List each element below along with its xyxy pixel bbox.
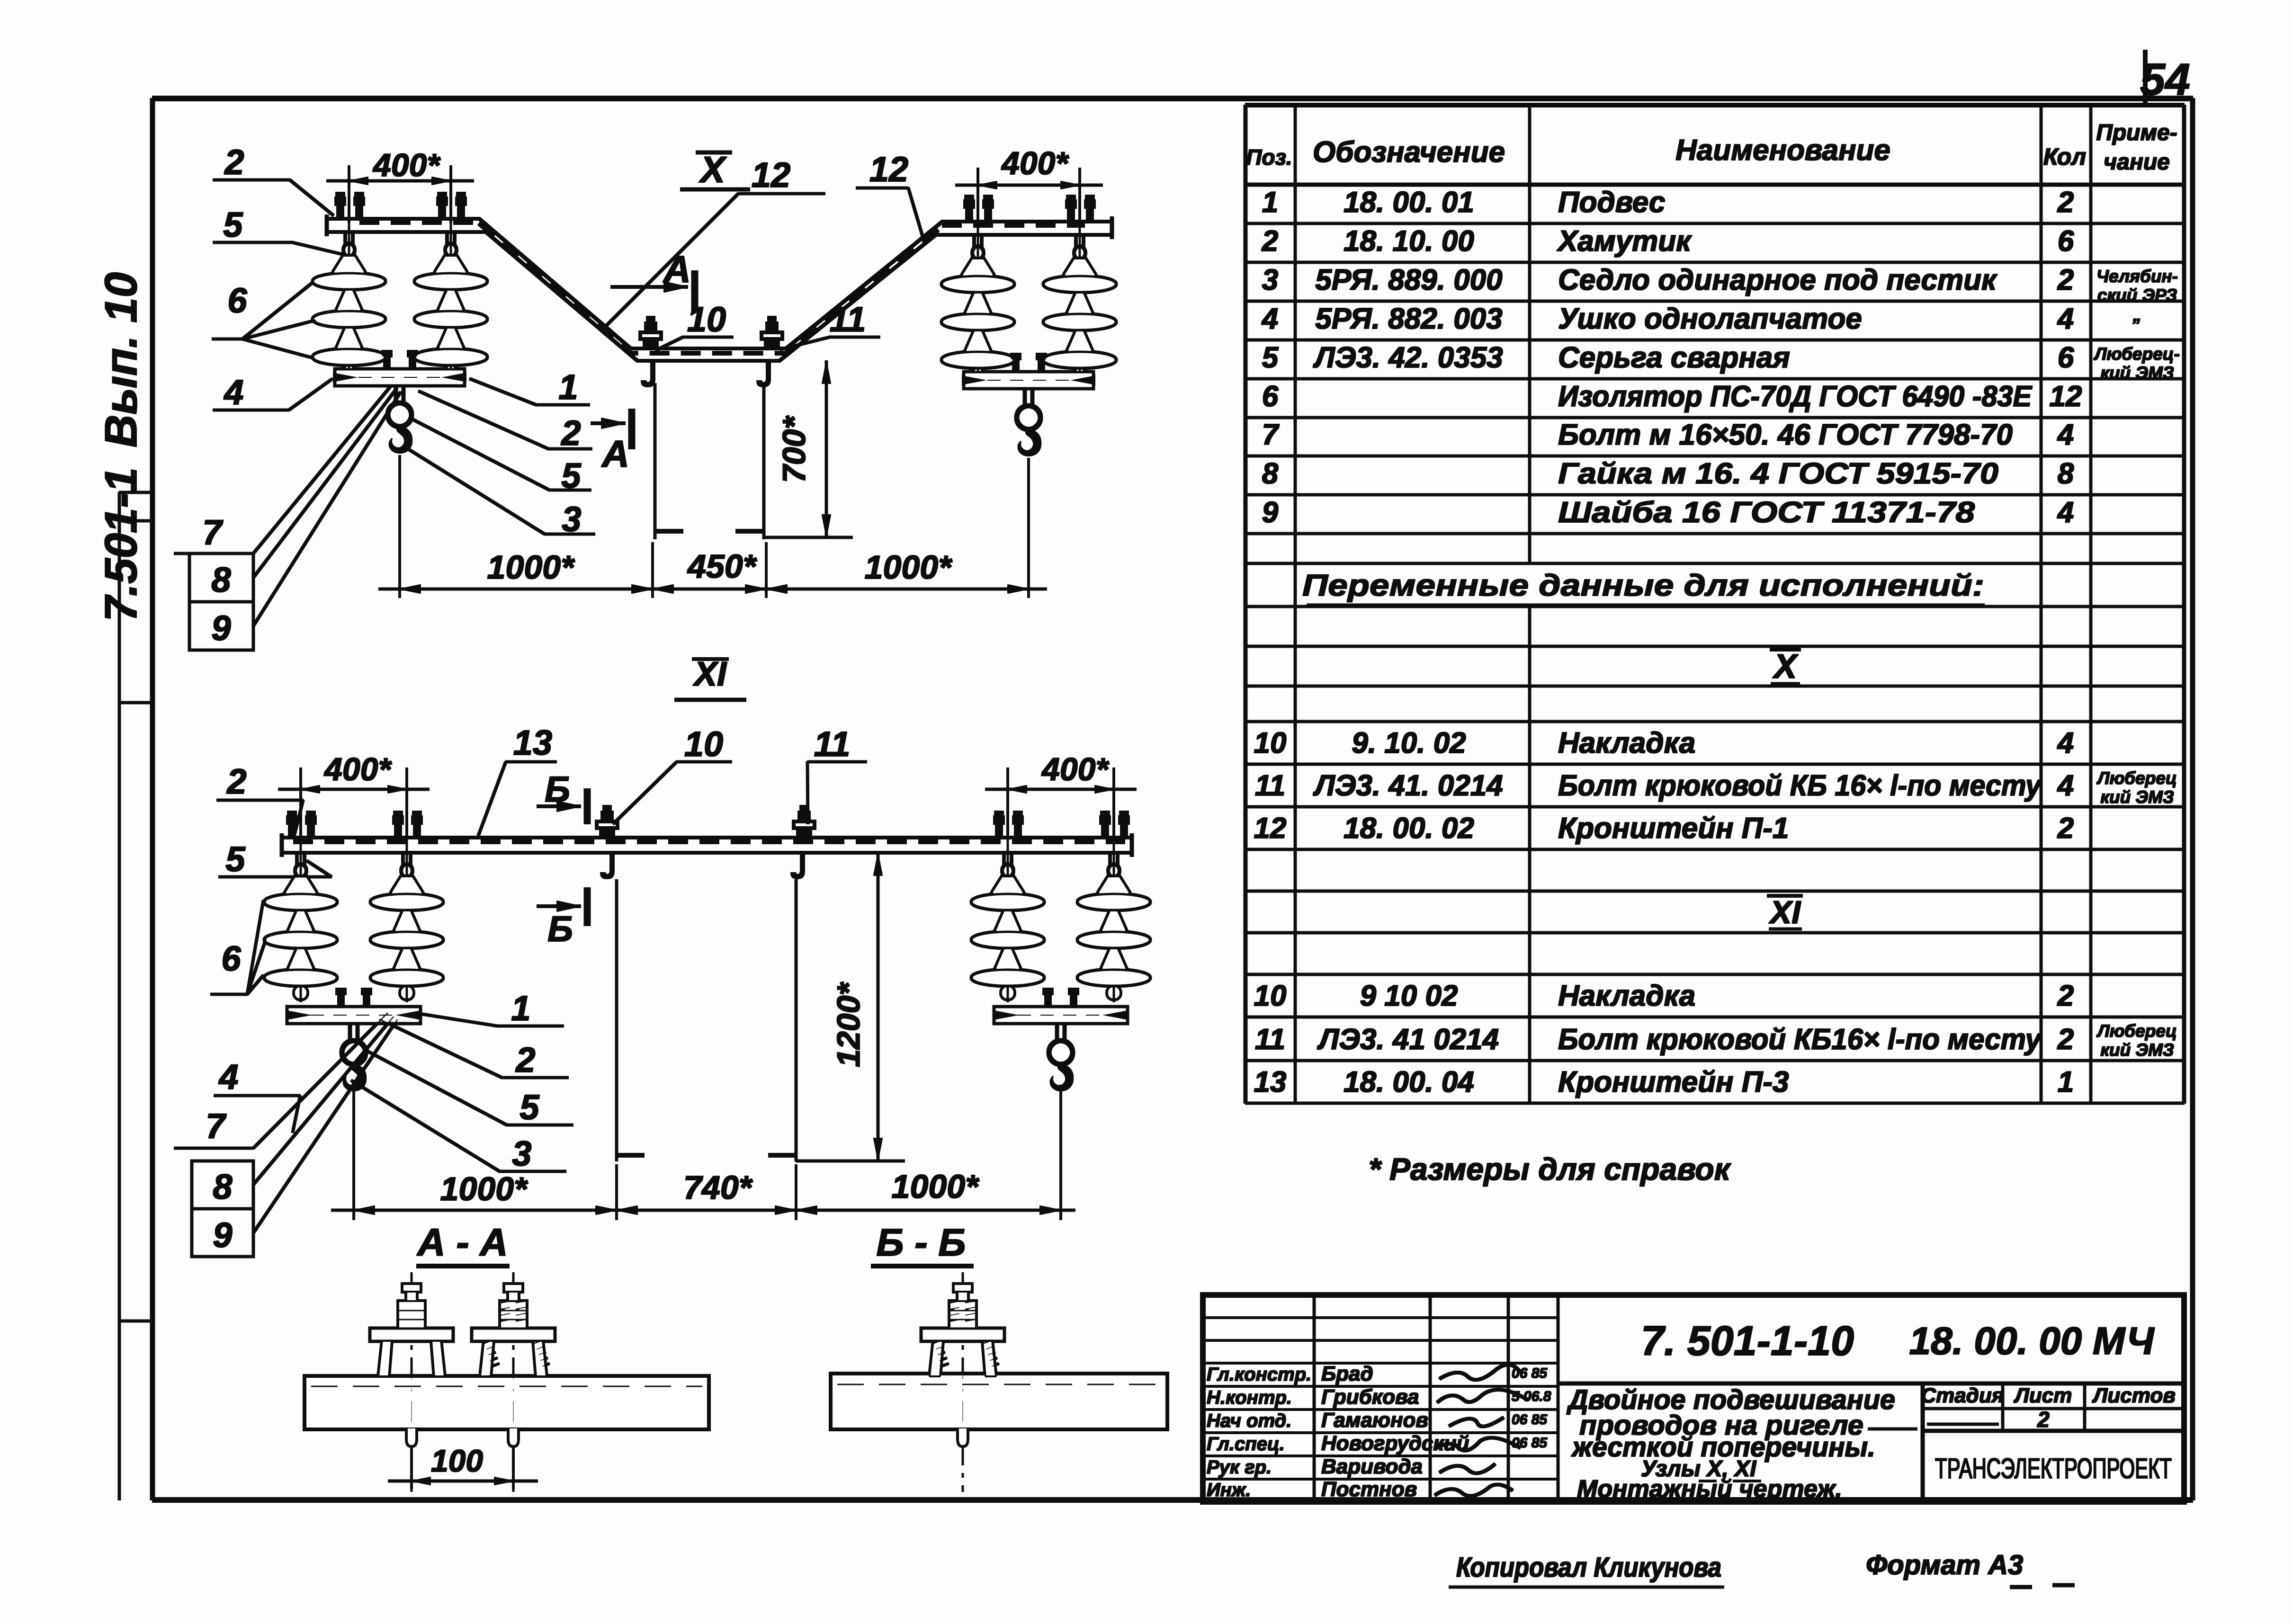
svg-text:Седло одинарное под пестик: Седло одинарное под пестик — [1558, 264, 1997, 296]
svg-text:5РЯ. 882. 003: 5РЯ. 882. 003 — [1315, 303, 1502, 335]
svg-text:XI: XI — [692, 655, 727, 693]
svg-text:4: 4 — [2057, 419, 2074, 451]
svg-text:2: 2 — [226, 762, 246, 801]
table row 9 Шайба 16 ГОСТ 11371-78 — [1262, 496, 2074, 529]
section A-A bolt left (saddle pos.3) — [370, 1273, 453, 1491]
hook assembly pos.5/3 (X left) — [388, 385, 412, 453]
hook assembly pos.5/3 (XI right) — [1049, 1023, 1073, 1091]
leader label 11 hook bolt X — [780, 300, 880, 349]
hook bolt hanger (left, under middle beam) — [641, 361, 655, 387]
section mark B (upper) — [537, 769, 587, 824]
svg-text:12: 12 — [2050, 380, 2082, 413]
suspension bar pos.1 (X right) — [964, 372, 1093, 388]
svg-text:1: 1 — [558, 367, 578, 407]
bracket P-1 (pos.12) dashes on beam — [360, 223, 1084, 353]
svg-text:2: 2 — [2057, 186, 2074, 219]
svg-text:8: 8 — [2058, 457, 2074, 490]
parts list table grid — [1245, 105, 2184, 1103]
dimension 400* (XI right) — [985, 751, 1136, 839]
leader label 2 bar clamp XI — [379, 1019, 568, 1080]
svg-text:1: 1 — [511, 989, 530, 1028]
lug pos.4 wedges on bar (XI left) — [287, 1010, 420, 1020]
leader labels 8 9 nut washer XI — [192, 1016, 398, 1257]
svg-text:54: 54 — [2140, 54, 2190, 105]
svg-text:Обозначение: Обозначение — [1313, 136, 1505, 169]
svg-text:кий ЭМЗ: кий ЭМЗ — [2100, 1040, 2174, 1060]
left margin column — [119, 492, 152, 1500]
svg-text:5 06.8: 5 06.8 — [1512, 1389, 1551, 1404]
svg-text:06 85: 06 85 — [1512, 1412, 1548, 1428]
svg-text:3: 3 — [512, 1134, 531, 1173]
leader label 5 hook earring XI — [366, 1050, 573, 1127]
lug pos.4 wedges on bar (X right) — [962, 375, 1095, 385]
svg-text:Лист: Лист — [2014, 1384, 2072, 1407]
table row 4 Ушко однолапчатое — [1261, 303, 2141, 335]
svg-text:1: 1 — [1262, 186, 1278, 219]
svg-text:Поз.: Поз. — [1246, 145, 1292, 170]
svg-text:11: 11 — [1255, 769, 1285, 802]
leader label 12 bracket P-1 right — [856, 150, 923, 239]
stage grid — [1921, 1384, 2175, 1432]
dimension 400* (XI left) — [278, 751, 429, 839]
view X title — [681, 149, 750, 190]
stand outline below middle beam — [655, 384, 764, 539]
table row 3 Седло одинарное под пестик — [1262, 264, 2178, 305]
signature row Инж. Постнов — [1207, 1478, 1513, 1501]
lug pos.4 wedges on bar (XI right) — [994, 1010, 1127, 1020]
section B-B bolt (hook bolt pos.11) — [922, 1273, 1004, 1491]
insulator string pos.6 (XI left-2) — [371, 824, 443, 1002]
dimension 400* (X left) — [327, 147, 474, 223]
svg-text:4: 4 — [223, 373, 243, 412]
svg-text:Гл.констр.: Гл.констр. — [1207, 1364, 1311, 1385]
svg-text:9: 9 — [213, 1215, 232, 1255]
svg-text:4: 4 — [2057, 727, 2074, 759]
title block frame — [1203, 1295, 2184, 1502]
svg-text:2: 2 — [2057, 980, 2074, 1012]
table row 7 Болт м 16×50. 46 ГОСТ 7798-70 — [1262, 419, 2074, 451]
svg-text:2: 2 — [2057, 264, 2074, 296]
svg-text:Ушко однолапчатое: Ушко однолапчатое — [1558, 303, 1862, 335]
svg-text:Б: Б — [545, 769, 570, 810]
svg-text:4: 4 — [218, 1057, 238, 1097]
sheet number 54 — [2140, 50, 2190, 105]
svg-text:6: 6 — [2058, 225, 2074, 258]
svg-text:13: 13 — [513, 723, 552, 762]
leader label 6 insulators XI — [211, 901, 266, 994]
svg-text:5РЯ. 889. 000: 5РЯ. 889. 000 — [1315, 264, 1502, 296]
svg-text:2: 2 — [515, 1040, 535, 1080]
leader label 2 bar clamp X — [419, 391, 592, 453]
section A-A bolt right (pad pos.10) — [472, 1273, 555, 1491]
organization name — [1935, 1453, 2172, 1484]
leader label 2 to beam clamp X — [213, 143, 333, 215]
svg-text:10: 10 — [684, 724, 723, 764]
svg-text:4: 4 — [2057, 496, 2074, 529]
svg-text:18. 00. 00 МЧ: 18. 00. 00 МЧ — [1909, 1320, 2155, 1363]
svg-text:Люберец: Люберец — [2096, 768, 2177, 788]
svg-text:ЛЭ3. 42. 0353: ЛЭ3. 42. 0353 — [1313, 341, 1503, 374]
group XI heading — [1767, 894, 1802, 930]
svg-text:Переменные данные для испол: Переменные данные для исполнений: — [1302, 568, 1984, 602]
svg-text:6: 6 — [227, 281, 247, 320]
svg-text:1: 1 — [2058, 1066, 2074, 1098]
svg-text:Формат А3: Формат А3 — [1866, 1550, 2023, 1580]
svg-text:ский ЭРЗ: ский ЭРЗ — [2097, 286, 2177, 305]
dimension chain 1000* 740* 1000* (XI) — [331, 1085, 1075, 1220]
leader label 5 hook earring X — [411, 419, 591, 495]
svg-text:400*: 400* — [372, 147, 441, 183]
svg-text:5: 5 — [223, 205, 243, 244]
svg-text:2: 2 — [2057, 1023, 2074, 1056]
svg-text:Кол: Кол — [2043, 143, 2086, 170]
copied-by line — [1449, 1550, 2074, 1587]
svg-text:4: 4 — [2057, 303, 2074, 335]
svg-text:12: 12 — [752, 155, 790, 195]
svg-text:кий ЭМЗ: кий ЭМЗ — [2100, 787, 2174, 807]
signature row Нач отд. Гамаюнов — [1207, 1409, 1548, 1432]
svg-text:5: 5 — [1262, 341, 1279, 374]
beam of unit XI (straight crossarm rail) — [282, 834, 1132, 857]
document numbers — [1641, 1317, 2155, 1364]
suspension bar pos.1 (XI right) — [994, 1007, 1127, 1023]
hook bolt pos.11 on middle beam — [761, 316, 782, 348]
leader label 1 suspension bar X — [470, 367, 590, 407]
svg-text:Серьга сварная: Серьга сварная — [1558, 341, 1790, 374]
svg-text:Болт м 16×50. 46 ГОСТ 7798-70: Болт м 16×50. 46 ГОСТ 7798-70 — [1558, 419, 2013, 451]
svg-text:9 10 02: 9 10 02 — [1360, 980, 1458, 1012]
clamp pos.2 on bar (X right) — [1011, 353, 1047, 372]
beam of unit X (bent crossarm rail) — [327, 215, 1112, 361]
svg-text:кий ЭМЗ: кий ЭМЗ — [2100, 363, 2174, 383]
svg-text:2: 2 — [224, 143, 244, 182]
svg-text:740*: 740* — [683, 1169, 753, 1206]
svg-text:Люберец-: Люберец- — [2093, 344, 2180, 364]
svg-text:Подвес: Подвес — [1558, 186, 1665, 219]
table row 8 Гайка м 16. 4 ГОСТ 5915-70 — [1262, 457, 2074, 490]
svg-text:Варивода: Варивода — [1321, 1455, 1423, 1478]
table row 10 Накладка — [1254, 980, 2074, 1012]
table row 2 Хамутик — [1262, 225, 2074, 258]
pad bolt pos.10 on beam XI — [597, 805, 618, 838]
svg-text:6: 6 — [1262, 380, 1279, 413]
dimension 1200* — [796, 853, 905, 1161]
svg-text:Наименование: Наименование — [1675, 134, 1890, 167]
svg-text:7: 7 — [1262, 419, 1280, 451]
svg-text:X: X — [1772, 648, 1799, 686]
svg-text:Кронштейн П-3: Кронштейн П-3 — [1558, 1066, 1789, 1098]
suspension bar pos.1 (X left) — [335, 369, 464, 385]
svg-text:18. 00. 04: 18. 00. 04 — [1344, 1066, 1474, 1098]
dimension chain 1000* 450* 1000* (X) — [379, 455, 1047, 598]
hook bolt pos.11 on beam XI — [794, 805, 815, 838]
table row 5 Серьга сварная — [1262, 341, 2180, 383]
svg-text:Брад: Брад — [1321, 1362, 1373, 1385]
svg-text:А: А — [601, 433, 629, 475]
svg-text:7. 501-1-10: 7. 501-1-10 — [1641, 1317, 1854, 1364]
svg-text:8: 8 — [213, 1167, 233, 1206]
svg-text:Хамутик: Хамутик — [1557, 225, 1692, 258]
leader label 3 hook XI — [351, 1080, 566, 1173]
table row 12 Кронштейн П-1 — [1254, 812, 2074, 845]
svg-text:ЛЭ3. 41 0214: ЛЭ3. 41 0214 — [1317, 1023, 1499, 1056]
leader label 5 to earring XI — [219, 839, 331, 879]
svg-text:400*: 400* — [323, 751, 392, 787]
svg-text:9: 9 — [1262, 496, 1279, 529]
leader label 4 to lug XI — [214, 1057, 300, 1133]
svg-text:2: 2 — [2057, 812, 2074, 845]
svg-text:13: 13 — [1254, 1066, 1287, 1098]
hook assembly pos.5/3 (X right) — [1017, 388, 1041, 456]
svg-text:1000*: 1000* — [440, 1170, 528, 1207]
insulator string pos.6 (XI right-2) — [1078, 824, 1150, 1002]
svg-text:Люберец: Люберец — [2096, 1021, 2177, 1041]
svg-text:5: 5 — [225, 839, 246, 879]
svg-text:4: 4 — [2057, 769, 2074, 802]
svg-text:Накладка: Накладка — [1558, 980, 1695, 1012]
insulator string pos.6 (X left-2) — [415, 204, 487, 381]
leader label 10 pad XI — [613, 724, 732, 824]
svg-text:100: 100 — [431, 1443, 483, 1478]
dimension 100 (A-A) — [388, 1443, 537, 1489]
svg-text:Вып. 10: Вып. 10 — [96, 272, 146, 447]
svg-text:1000*: 1000* — [865, 549, 953, 586]
insulator string pos.6 (XI left-1) — [265, 824, 337, 1002]
svg-text:10: 10 — [1254, 980, 1287, 1012]
svg-text:18. 00. 01: 18. 00. 01 — [1344, 186, 1474, 219]
insulator string pos.6 (X left-1) — [313, 204, 385, 381]
section mark B (lower) — [537, 888, 587, 949]
svg-text:450*: 450* — [687, 548, 757, 585]
svg-text:ЛЭ3. 41. 0214: ЛЭ3. 41. 0214 — [1313, 769, 1503, 802]
svg-text:Болт крюковой КБ16× l-по мест: Болт крюковой КБ16× l-по месту — [1558, 1023, 2042, 1056]
leader label 12 bracket P-1 left — [601, 155, 825, 330]
svg-text:7.501-1: 7.501-1 — [96, 467, 146, 622]
svg-text:11: 11 — [814, 724, 851, 764]
leader label 1 suspension bar XI — [422, 989, 564, 1028]
lug pos.4 wedges on bar (X left) — [333, 372, 466, 383]
footnote: dimensions for reference — [1369, 1151, 1732, 1187]
svg-text:Рук гр.: Рук гр. — [1207, 1457, 1272, 1478]
section B-B title — [871, 1221, 973, 1266]
svg-text:10: 10 — [1254, 727, 1287, 759]
clamp bolts pos.2 on beam (XI right pair) — [994, 811, 1023, 838]
svg-text:А - А: А - А — [416, 1221, 508, 1264]
clamp pos.2 on bar (XI left) — [336, 988, 372, 1007]
svg-text:Копировал Кликунова: Копировал Кликунова — [1456, 1552, 1721, 1583]
table header — [1246, 120, 2177, 175]
svg-text:400*: 400* — [1041, 751, 1110, 787]
clamp pos.2 on bar (X left) — [382, 350, 418, 369]
clamp bolts pos.2 on beam (right pair) — [964, 195, 994, 222]
svg-text:700*: 700* — [776, 415, 812, 483]
hook bolt hanger (right, under beam XI) — [791, 853, 805, 879]
svg-text:06 85: 06 85 — [1512, 1365, 1548, 1381]
svg-text:18. 10. 00: 18. 10. 00 — [1344, 225, 1474, 258]
view XI title — [675, 655, 746, 700]
insulator string pos.6 (X right-2) — [1044, 206, 1116, 384]
svg-text:11: 11 — [830, 300, 866, 339]
insulator string pos.6 (XI right-1) — [972, 824, 1044, 1002]
leader label 7 bolt X — [174, 384, 392, 553]
drawing frame — [152, 98, 2193, 1500]
leader label 3 hook X — [406, 448, 595, 539]
dimension 700* — [764, 361, 852, 537]
svg-text:6: 6 — [2058, 341, 2074, 374]
section A-A beam — [305, 1376, 708, 1429]
svg-text:Гл.спец.: Гл.спец. — [1207, 1434, 1285, 1454]
section mark A (lower) — [591, 409, 632, 475]
clamp bolts pos.2 on beam (left pair) — [335, 192, 365, 219]
table row 13 Кронштейн П-3 — [1254, 1066, 2074, 1098]
bolt pos.10 on middle beam — [640, 316, 661, 348]
svg-text:9: 9 — [211, 608, 231, 648]
section B-B beam — [831, 1374, 1167, 1429]
leader label 13 bracket P-3 — [478, 723, 556, 836]
svg-text:11: 11 — [1255, 1023, 1285, 1056]
svg-text:400*: 400* — [1001, 145, 1069, 181]
stand outline below beam XI — [617, 880, 796, 1161]
svg-text:10: 10 — [687, 300, 726, 339]
svg-text:12: 12 — [1254, 812, 1287, 845]
signature row Рук гр. Варивода — [1207, 1455, 1495, 1478]
svg-text:9. 10. 02: 9. 10. 02 — [1352, 727, 1466, 759]
svg-text:2: 2 — [1262, 225, 1278, 258]
svg-text:Приме-: Приме- — [2096, 120, 2177, 145]
svg-text:1000*: 1000* — [892, 1168, 980, 1205]
svg-text:18. 00. 02: 18. 00. 02 — [1344, 812, 1474, 845]
svg-text:12: 12 — [869, 150, 908, 189]
svg-text:XI: XI — [1768, 894, 1801, 930]
svg-text:Инж.: Инж. — [1207, 1480, 1251, 1500]
signature row Н.контр. Грибкова — [1207, 1385, 1551, 1409]
svg-text:Грибкова: Грибкова — [1321, 1385, 1419, 1409]
leader label 11 hook bolt XI — [807, 724, 867, 824]
svg-text:Монтажный чертеж.: Монтажный чертеж. — [1577, 1475, 1842, 1503]
table row 1 Подвес — [1262, 186, 2074, 219]
bracket P-3 (pos.13) dashes on beam — [294, 840, 1125, 844]
project description — [1566, 1384, 1917, 1503]
hook assembly pos.5/3 (XI left) — [342, 1023, 366, 1091]
leader label 6 insulators X — [212, 281, 316, 358]
svg-text:6: 6 — [221, 939, 241, 978]
svg-text:Н.контр.: Н.контр. — [1207, 1387, 1292, 1408]
insulator string pos.6 (X right-1) — [942, 206, 1014, 384]
table row 11 Болт крюковой КБ16× l-по месту — [1255, 1021, 2177, 1060]
svg-text:чание: чание — [2104, 150, 2170, 175]
svg-text:Болт крюковой КБ 16× l-по мес: Болт крюковой КБ 16× l-по месту — [1558, 769, 2042, 802]
svg-text:Постнов: Постнов — [1321, 1478, 1417, 1501]
svg-text:2: 2 — [560, 413, 581, 453]
clamp bolts pos.2 on beam (XI left pair) — [287, 811, 316, 838]
leader label 4 to lug X — [213, 373, 332, 412]
table row 11 Болт крюковой КБ 16× l-по месту — [1255, 768, 2177, 807]
svg-text:Листов: Листов — [2092, 1384, 2176, 1407]
svg-text:06 85: 06 85 — [1512, 1435, 1548, 1451]
svg-text:Шайба 16 ГОСТ 11371-78: Шайба 16 ГОСТ 11371-78 — [1558, 496, 1975, 529]
group X heading — [1770, 648, 1800, 686]
svg-text:Нач отд.: Нач отд. — [1207, 1410, 1291, 1431]
svg-text:7: 7 — [202, 513, 224, 552]
hook bolt hanger (left, under beam XI) — [600, 853, 614, 879]
svg-text:4: 4 — [1261, 303, 1278, 335]
leader label 2 to beam clamp XI — [217, 762, 303, 834]
clamp pos.2 on bar (XI right) — [1043, 988, 1079, 1007]
svg-text:* Размеры для справок: * Размеры для справок — [1369, 1151, 1732, 1187]
svg-text:1200*: 1200* — [831, 982, 867, 1067]
svg-text:5: 5 — [520, 1088, 540, 1127]
svg-text:8: 8 — [1262, 457, 1279, 490]
dimension 400* (X right) — [956, 145, 1102, 225]
svg-text:8: 8 — [211, 560, 231, 599]
leader label 5 to earring X — [213, 205, 344, 255]
side annotation 7.501-1 Vyp.10 — [96, 272, 146, 622]
svg-text:Б: Б — [547, 909, 573, 949]
leader label 10 pad on beam X — [656, 300, 733, 350]
svg-text:„: „ — [2132, 305, 2142, 325]
section mark A (upper) — [611, 248, 695, 312]
signature row Гл.констр. Брад — [1207, 1362, 1548, 1385]
section A-A title — [416, 1221, 509, 1266]
table row 10 Накладка — [1254, 727, 2074, 759]
svg-text:2: 2 — [2037, 1407, 2050, 1432]
svg-text:Б - Б: Б - Б — [877, 1221, 966, 1264]
svg-text:ТРАНСЭЛЕКТРОПРОЕКТ: ТРАНСЭЛЕКТРОПРОЕКТ — [1935, 1453, 2172, 1484]
svg-text:Гайка м 16. 4 ГОСТ 5915-70: Гайка м 16. 4 ГОСТ 5915-70 — [1558, 457, 1998, 490]
leader labels 8 9 nut washer X — [189, 388, 401, 650]
svg-text:Челябин-: Челябин- — [2096, 267, 2178, 286]
svg-text:X: X — [699, 149, 727, 190]
svg-text:Накладка: Накладка — [1558, 727, 1695, 759]
svg-text:Изолятор ПС-70Д ГОСТ 6490 -83Е: Изолятор ПС-70Д ГОСТ 6490 -83Е — [1558, 380, 2033, 413]
svg-text:7: 7 — [206, 1106, 227, 1146]
section header: variable data — [1302, 568, 1984, 605]
svg-text:Стадия: Стадия — [1921, 1384, 2004, 1407]
signature row Гл.спец. Новогрудский — [1207, 1432, 1548, 1455]
leader label 7 bolt XI — [174, 1012, 388, 1148]
svg-text:3: 3 — [1262, 264, 1278, 296]
svg-text:Кронштейн П-1: Кронштейн П-1 — [1558, 812, 1789, 845]
suspension bar pos.1 (XI left) — [287, 1007, 420, 1023]
svg-text:Гамаюнов: Гамаюнов — [1321, 1409, 1428, 1432]
svg-text:1000*: 1000* — [487, 549, 575, 586]
hook bolt hanger (right, under middle beam) — [757, 361, 770, 387]
table row 6 Изолятор ПС-70Д ГОСТ 6490 -83Е — [1262, 380, 2082, 413]
